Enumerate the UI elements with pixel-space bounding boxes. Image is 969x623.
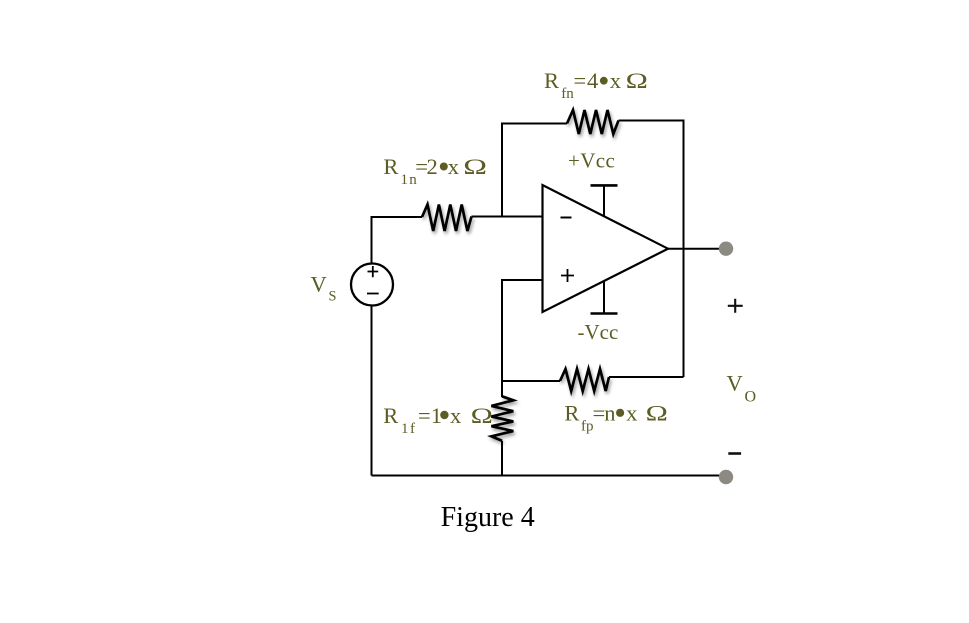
resistor Rfn (zigzag, top feedback) <box>567 110 619 134</box>
svg-text:R: R <box>564 400 579 425</box>
svg-text:Figure 4: Figure 4 <box>441 502 535 533</box>
svg-text:n: n <box>604 400 615 425</box>
wire bottom feedback right segment <box>609 376 684 378</box>
wire op-amp output <box>668 248 725 250</box>
wire op-amp + input to node B vertical down to R1f <box>502 280 542 397</box>
svg-text:Ω: Ω <box>626 68 648 93</box>
svg-text:-Vcc: -Vcc <box>578 320 619 344</box>
svg-text:2: 2 <box>427 154 438 179</box>
label Rfn=4*x Ohm <box>544 68 648 102</box>
svg-text:x: x <box>448 154 459 179</box>
resistor Rfp (zigzag, bottom feedback) <box>560 369 609 391</box>
output polarity minus <box>728 452 741 455</box>
caption Figure 4 <box>441 502 535 533</box>
svg-text:fn: fn <box>561 86 574 102</box>
svg-text:R: R <box>383 403 398 428</box>
ground node terminal dot <box>719 470 733 484</box>
wire R1f bottom to ground rail <box>501 441 503 476</box>
svg-text:Ω: Ω <box>471 403 493 428</box>
minus sign inside Vs <box>367 293 379 295</box>
svg-text:4: 4 <box>587 68 598 93</box>
resistor R1f (vertical zigzag) <box>491 396 513 441</box>
label +Vcc <box>568 149 615 173</box>
op-amp U1 triangle <box>543 185 669 312</box>
label Rfp=n*x Ohm <box>564 400 668 434</box>
op-amp non-inverting input plus sign <box>561 269 574 282</box>
svg-text:S: S <box>329 289 337 305</box>
output polarity plus <box>728 299 743 313</box>
wire bottom feedback left segment to node B <box>502 380 560 382</box>
svg-text:Ω: Ω <box>646 400 668 425</box>
voltage source Vs (circle) <box>351 264 393 306</box>
label Vs <box>311 272 337 305</box>
wire Rfn right to right rail down to bottom feedback <box>619 121 684 378</box>
wire node A vertical: inverting input up to top feedback <box>502 124 567 218</box>
+Vcc rail bar and stub <box>591 184 618 187</box>
svg-text:O: O <box>745 389 757 406</box>
svg-text:1f: 1f <box>401 421 417 437</box>
output node terminal dot <box>719 242 733 256</box>
wire from Vs top to R1n left <box>372 217 423 264</box>
label R1n=2*x Ohm <box>383 154 487 188</box>
op-amp inverting input minus sign <box>561 217 572 219</box>
resistor R1n (zigzag) <box>422 205 472 232</box>
svg-text:R: R <box>383 154 398 179</box>
svg-text:V: V <box>311 272 327 297</box>
svg-text:x: x <box>450 403 461 428</box>
svg-text:=: = <box>418 403 431 428</box>
wire bottom rail <box>372 475 726 477</box>
wire R1n to op-amp inverting input <box>472 216 543 218</box>
svg-text:R: R <box>544 68 559 93</box>
svg-text:Ω: Ω <box>463 154 487 179</box>
label Vo <box>727 371 757 406</box>
svg-text:+Vcc: +Vcc <box>568 149 615 173</box>
-Vcc rail bar and stub <box>591 312 618 315</box>
plus sign inside Vs <box>368 266 379 277</box>
svg-text:V: V <box>727 371 743 396</box>
svg-text:x: x <box>610 68 621 93</box>
svg-text:=: = <box>574 68 587 93</box>
svg-text:x: x <box>626 400 637 425</box>
label R1f=1*x Ohm <box>383 403 493 437</box>
wire Vs bottom down to bottom rail <box>371 306 373 476</box>
label -Vcc <box>578 320 619 344</box>
